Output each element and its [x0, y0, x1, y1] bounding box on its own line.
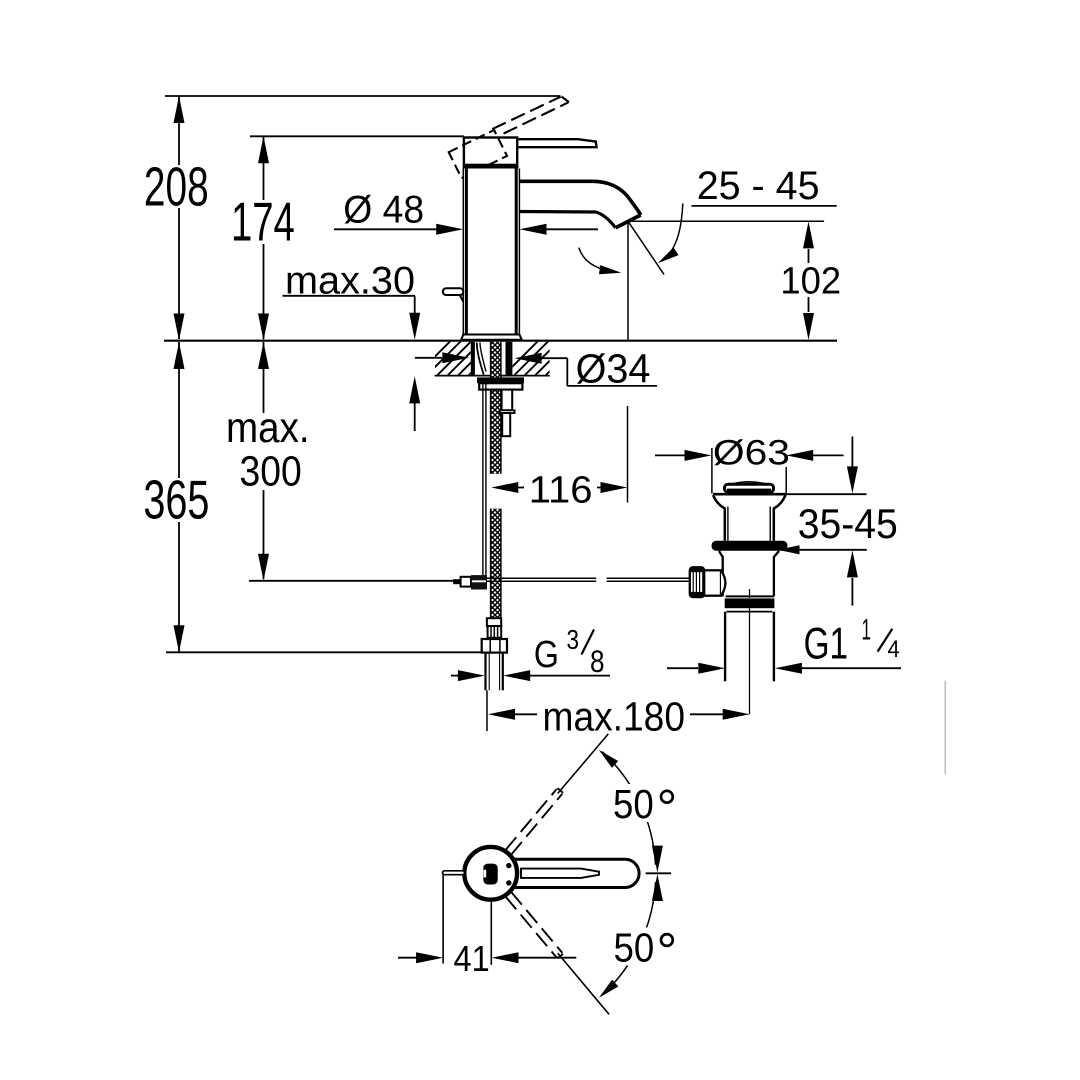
- svg-text:1: 1: [862, 614, 872, 647]
- drain body below seal: [719, 551, 779, 596]
- 50° swivel arc upper: [602, 752, 655, 865]
- stream angle arc small: [579, 248, 616, 273]
- mounting nut: [479, 383, 522, 389]
- pop-up rod knob on body: [443, 288, 464, 295]
- drain flange body: [713, 494, 786, 541]
- 50° swivel arc lower: [602, 882, 655, 995]
- dimension max.180: [488, 709, 515, 720]
- countertop slab bottom line: [435, 375, 550, 377]
- label 50° lower: [606, 928, 680, 966]
- screw dots: [506, 863, 511, 868]
- svg-text:max.180: max.180: [543, 694, 686, 740]
- svg-text:208: 208: [144, 157, 209, 218]
- rubber seal ring: [712, 541, 788, 551]
- svg-text:35-45: 35-45: [798, 501, 898, 547]
- gray artifact line: [944, 681, 946, 775]
- countertop surface line: [164, 340, 837, 342]
- drain locknut bands: [726, 595, 774, 597]
- dimension 35-45: [786, 493, 867, 495]
- dimension 116: [627, 406, 629, 503]
- knurled knob of pop-up linkage: [690, 567, 704, 597]
- shank interior curves: [477, 343, 484, 375]
- dashed lever plan lower: [505, 892, 562, 958]
- top reference line L1 (y=96): [165, 95, 561, 97]
- svg-text:50: 50: [613, 781, 654, 827]
- stud lower stub: [502, 413, 510, 436]
- knob stem: [704, 570, 721, 595]
- reference line at hose nut level (y=652.3): [166, 651, 482, 653]
- svg-text:Ø34: Ø34: [576, 345, 651, 391]
- svg-text:Ø63: Ø63: [713, 433, 790, 472]
- water stream angle line: [628, 222, 664, 275]
- plug plan detail: [483, 864, 497, 885]
- spout outlet face: [616, 215, 641, 228]
- hose ferrule: [487, 618, 501, 626]
- lever handle (horizontal): [517, 139, 596, 147]
- dimension 365 vertical line: [178, 342, 180, 478]
- pop-up plug cap: [733, 482, 765, 484]
- svg-text:50: 50: [614, 924, 655, 970]
- faucet base flange: [461, 335, 522, 340]
- dimension 41: [442, 875, 444, 964]
- pop-up vertical rod: [482, 383, 484, 575]
- svg-text:8: 8: [590, 644, 605, 679]
- braided supply hose lower: [491, 509, 501, 619]
- dimension G1 1/4: [667, 667, 698, 669]
- stream angle arc large: [662, 204, 683, 261]
- mounting hole edges: [471, 342, 475, 375]
- horizontal pop-up rod to drain: [487, 577, 596, 579]
- spout outer curve: [517, 181, 641, 215]
- dimension G3/8: [451, 675, 458, 677]
- solid lever axis extension upper: [558, 734, 609, 794]
- spout (white fill under): [517, 181, 641, 228]
- svg-text:365: 365: [143, 470, 209, 531]
- spout inner curve: [518, 212, 616, 228]
- reference line at tee level (y=580.8): [249, 580, 454, 582]
- dimension Ø48 arrows: [334, 228, 437, 230]
- dimension Ø34 with leader: [415, 357, 442, 359]
- countertop hatching: [416, 340, 582, 376]
- dimension Ø63: [655, 454, 685, 456]
- svg-text:116: 116: [529, 468, 593, 511]
- spout outlet projection line: [627, 221, 629, 339]
- faucet head (cartridge housing): [464, 138, 517, 169]
- hose ribbed collar: [488, 626, 502, 638]
- svg-text:Ø 48: Ø 48: [343, 188, 424, 231]
- svg-text:41: 41: [454, 938, 490, 979]
- svg-text:3: 3: [567, 623, 580, 655]
- reference line L2 (y=136.3): [250, 135, 464, 137]
- svg-text:25 - 45: 25 - 45: [697, 164, 820, 208]
- dimension 174 vertical line: [263, 136, 265, 200]
- solid lever axis extension lower: [558, 953, 609, 1014]
- G3/8 threaded pipe end: [484, 653, 486, 691]
- faucet body circle (plan): [464, 847, 517, 900]
- svg-text:102: 102: [780, 260, 841, 302]
- svg-text:G: G: [534, 633, 559, 676]
- drain tailpiece tube: [724, 612, 726, 681]
- faucet body: [464, 169, 519, 335]
- svg-text:174: 174: [231, 192, 295, 253]
- dashed handle head (raised position): [449, 130, 507, 178]
- dashed lever (raised position): [492, 97, 561, 129]
- label 50° upper: [606, 784, 680, 822]
- drain axis line: [749, 589, 751, 598]
- dimension 102: [803, 221, 814, 248]
- handle plan (stadium): [514, 859, 639, 887]
- G3/8 hose nut: [482, 639, 507, 653]
- svg-text:4: 4: [888, 637, 900, 663]
- braided supply hose upper: [491, 342, 501, 474]
- tee connector of pop-up linkage: [453, 579, 460, 584]
- spout outlet reference line: [628, 220, 824, 222]
- handle inner ridge: [521, 869, 599, 878]
- dimension 208 vertical line: [178, 96, 180, 165]
- svg-text:max.: max.: [226, 405, 310, 452]
- dashed lever plan upper: [505, 789, 562, 855]
- svg-text:G1: G1: [804, 619, 849, 668]
- mounting washer: [477, 377, 524, 383]
- threaded stud: [502, 390, 513, 411]
- stud plate: [500, 410, 515, 413]
- svg-text:300: 300: [240, 448, 302, 495]
- axis tick left: [443, 871, 465, 875]
- axis segment right: [646, 872, 671, 874]
- dimension max.300 vertical line: [263, 342, 265, 413]
- axis extension line below pipe: [486, 690, 488, 731]
